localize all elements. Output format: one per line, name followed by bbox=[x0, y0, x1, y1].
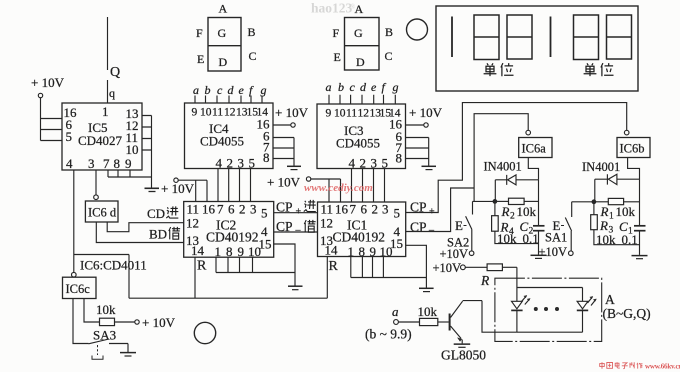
IC4 CD4055 bbox=[185, 103, 274, 169]
digit 8 box 3 bbox=[574, 15, 599, 60]
svg-text:D: D bbox=[356, 55, 365, 69]
ground at C1 bbox=[632, 256, 648, 259]
svg-text:C: C bbox=[385, 49, 393, 63]
wire IC2 pin15 to bottom bus bbox=[274, 244, 295, 273]
terminal a input bbox=[392, 304, 420, 324]
svg-text:8: 8 bbox=[226, 244, 233, 259]
svg-text:c: c bbox=[217, 83, 223, 97]
svg-text:12: 12 bbox=[320, 216, 333, 231]
resistor R2 10k bbox=[495, 198, 539, 221]
IC6a gate bbox=[519, 130, 552, 157]
svg-text:+10V: +10V bbox=[440, 247, 469, 261]
svg-text:R: R bbox=[329, 259, 339, 274]
wire IC6a output net bbox=[474, 114, 528, 202]
connector circle lower bbox=[194, 322, 215, 343]
svg-text:c: c bbox=[350, 80, 356, 94]
svg-text:3: 3 bbox=[382, 202, 389, 217]
LED D-b bbox=[577, 296, 597, 310]
svg-text:GL8050: GL8050 bbox=[441, 348, 486, 363]
diode IN4001 right bbox=[582, 160, 640, 185]
svg-text:3: 3 bbox=[238, 156, 245, 171]
svg-text:+ 10V: + 10V bbox=[142, 315, 176, 330]
LED array inner frame bbox=[517, 288, 583, 333]
wire R to LED anode bus bbox=[516, 267, 518, 287]
svg-text:A: A bbox=[219, 2, 228, 16]
resistor R bbox=[480, 264, 517, 288]
svg-text:11: 11 bbox=[212, 107, 223, 119]
IC1 CD40192 bbox=[318, 202, 406, 257]
svg-text:3: 3 bbox=[250, 202, 257, 217]
svg-text:12: 12 bbox=[186, 216, 199, 231]
svg-text:+10V: +10V bbox=[433, 261, 462, 275]
label BD借 bbox=[149, 227, 180, 242]
IC6c gate bbox=[63, 255, 97, 299]
svg-text:12: 12 bbox=[358, 108, 370, 120]
svg-text:5: 5 bbox=[261, 206, 268, 221]
wire IC6b input step bbox=[628, 158, 640, 180]
svg-text:2: 2 bbox=[372, 202, 379, 217]
digit 8 box 2 bbox=[507, 15, 532, 59]
svg-text:+: + bbox=[296, 207, 302, 218]
wire IC1 pin15 to bottom bus bbox=[406, 245, 427, 277]
IC6b gate bbox=[617, 130, 650, 157]
wire IC6d to IC2 pin12 CD input bbox=[107, 222, 184, 232]
svg-text:IC6b: IC6b bbox=[620, 142, 645, 156]
capacitor C2 0.1 bbox=[520, 180, 545, 255]
svg-text:A: A bbox=[355, 2, 364, 16]
display panel box bbox=[436, 6, 638, 91]
svg-text:C: C bbox=[249, 49, 257, 63]
svg-text:E: E bbox=[455, 218, 463, 233]
wire IC4 pins 6,7,8 to ground bbox=[273, 138, 294, 166]
svg-text:G: G bbox=[354, 26, 363, 40]
7-segment reference diagram left bbox=[196, 2, 257, 72]
wire IC3 segment output stubs bbox=[329, 95, 395, 104]
svg-text:10: 10 bbox=[334, 108, 346, 120]
svg-text:www.66kv.cn: www.66kv.cn bbox=[645, 363, 680, 371]
svg-text:+ 10V: + 10V bbox=[275, 105, 309, 120]
IC3 CD4055 bbox=[317, 104, 406, 169]
svg-text:1: 1 bbox=[102, 104, 109, 119]
svg-text:IC6a: IC6a bbox=[522, 142, 547, 156]
switch SA1 bbox=[539, 218, 574, 260]
resistor R4 10k bbox=[492, 201, 539, 245]
svg-text:14: 14 bbox=[191, 243, 205, 258]
power rail symbol +10V at IC5 bus bbox=[145, 181, 195, 196]
+10V terminal feeding IC1 pins 11,16 bbox=[267, 175, 341, 203]
svg-text:E: E bbox=[197, 52, 204, 66]
svg-text:10: 10 bbox=[248, 244, 261, 259]
+10V terminal feeding IC2 pins 11,16 bbox=[174, 178, 207, 202]
svg-text:7: 7 bbox=[350, 202, 357, 217]
transistor GL8050 bbox=[441, 301, 486, 363]
svg-text:7: 7 bbox=[103, 156, 110, 171]
wire IC1 pins 1,8,9,10 to bottom bus bbox=[351, 257, 427, 288]
+10V terminal feeding resistor R bbox=[433, 261, 488, 275]
LED D-a bbox=[511, 295, 530, 310]
connector circle upper bbox=[407, 19, 428, 40]
svg-text:6: 6 bbox=[228, 202, 235, 217]
resistor R3 10k bbox=[591, 202, 640, 247]
svg-text:10k: 10k bbox=[96, 302, 116, 317]
svg-text:8: 8 bbox=[359, 244, 366, 259]
wire CP- IC1 to IC6a output bbox=[406, 188, 474, 232]
svg-text:BD: BD bbox=[149, 227, 167, 242]
svg-text:5: 5 bbox=[66, 129, 73, 144]
svg-text:R: R bbox=[600, 204, 609, 219]
svg-text:4: 4 bbox=[349, 156, 356, 171]
ground at IC1 bus bbox=[419, 288, 434, 291]
svg-text:7: 7 bbox=[217, 202, 224, 217]
digit "1" bar right group bbox=[550, 17, 552, 58]
svg-text:Q: Q bbox=[110, 65, 120, 80]
svg-text:IN4001: IN4001 bbox=[582, 160, 620, 174]
wire SA2 node bbox=[473, 201, 495, 214]
svg-text:b: b bbox=[338, 80, 344, 94]
svg-text:CP: CP bbox=[276, 200, 293, 215]
svg-text:D: D bbox=[219, 55, 228, 69]
ground at SA3 bbox=[120, 344, 136, 357]
svg-text:g: g bbox=[393, 80, 399, 94]
svg-text:g: g bbox=[261, 83, 267, 97]
svg-text:CP: CP bbox=[410, 220, 427, 235]
label 单位 left bbox=[484, 63, 514, 76]
wire CP+ IC2 to IC1 bbox=[274, 212, 318, 214]
ground at IC4 bbox=[287, 166, 301, 169]
IC5 CD4027 bbox=[62, 103, 142, 170]
svg-text:+10V: +10V bbox=[539, 245, 568, 259]
label CP- of IC1 bbox=[410, 220, 435, 237]
wire IC6a input step bbox=[528, 158, 538, 180]
svg-text:IC6c: IC6c bbox=[66, 282, 91, 296]
svg-text:IN4001: IN4001 bbox=[484, 160, 522, 174]
wire IC6c input to SA3 bbox=[73, 299, 89, 344]
svg-text:12: 12 bbox=[224, 107, 236, 119]
svg-text:6: 6 bbox=[361, 202, 368, 217]
svg-text:F: F bbox=[196, 26, 203, 40]
+10V terminal at IC6c resistor bbox=[115, 315, 176, 330]
svg-text:d: d bbox=[360, 80, 367, 94]
svg-text:10k: 10k bbox=[497, 231, 517, 246]
svg-text:E: E bbox=[334, 50, 341, 64]
svg-text:11: 11 bbox=[346, 108, 357, 120]
pushbutton SA3 bbox=[89, 328, 129, 360]
diode IN4001 left bbox=[484, 160, 539, 185]
wire IC3 BCD outputs to IC1 bbox=[352, 169, 385, 203]
svg-text:1: 1 bbox=[609, 212, 614, 222]
svg-text:10: 10 bbox=[380, 244, 393, 259]
svg-text:CD4055: CD4055 bbox=[336, 136, 380, 151]
ground at IC3 bbox=[422, 166, 437, 169]
svg-text:(b ~ 9.9): (b ~ 9.9) bbox=[365, 327, 412, 342]
wire IC2 pin14 R to bus bbox=[194, 257, 196, 298]
svg-text:5: 5 bbox=[394, 206, 401, 221]
capacitor C1 0.1 bbox=[619, 179, 646, 255]
svg-text:SA1: SA1 bbox=[545, 231, 567, 245]
svg-text:10k: 10k bbox=[616, 204, 636, 219]
node R1 top junction bbox=[592, 200, 596, 204]
svg-text:e: e bbox=[371, 80, 377, 94]
segment input labels a-g of IC3 bbox=[326, 80, 399, 94]
wire IC4 BCD outputs to IC2 bbox=[218, 169, 251, 202]
resistor 10k at base bbox=[418, 304, 449, 326]
svg-text:10: 10 bbox=[200, 107, 212, 119]
resistor R1 10k bbox=[594, 198, 640, 221]
svg-text:CD40192: CD40192 bbox=[333, 230, 386, 245]
svg-text:d: d bbox=[228, 83, 235, 97]
svg-text:4: 4 bbox=[66, 156, 73, 171]
svg-text:11: 11 bbox=[321, 202, 334, 217]
wire IC5 pins 7,8,9 bus bbox=[108, 170, 152, 188]
ground at C2 bbox=[531, 255, 547, 258]
svg-text:G: G bbox=[218, 26, 227, 40]
watermark 66kv red bbox=[600, 362, 643, 368]
ground at IC2 bus bbox=[288, 286, 303, 290]
svg-text:(B~G,Q): (B~G,Q) bbox=[603, 306, 651, 321]
svg-text:CD4055: CD4055 bbox=[200, 134, 244, 149]
svg-text:9: 9 bbox=[125, 156, 132, 171]
label CP+ of IC1 bbox=[410, 200, 435, 218]
LED array enclosure dash-dot box bbox=[495, 278, 602, 341]
digit "1" bar left group bbox=[451, 17, 453, 58]
wire IC5 left supply bus bbox=[41, 98, 63, 141]
svg-text:e: e bbox=[239, 83, 245, 97]
svg-text:R: R bbox=[480, 273, 490, 288]
dots between LEDs bbox=[534, 307, 559, 311]
node Q bbox=[108, 17, 121, 103]
svg-text:q: q bbox=[109, 86, 115, 100]
node R2 top junction bbox=[493, 200, 497, 204]
svg-text:1: 1 bbox=[215, 244, 222, 259]
svg-text:16: 16 bbox=[335, 202, 349, 217]
svg-text:+ 10V: + 10V bbox=[267, 175, 301, 190]
svg-text:9: 9 bbox=[238, 244, 245, 259]
svg-text:CD4027: CD4027 bbox=[78, 133, 123, 148]
svg-text:3: 3 bbox=[88, 156, 95, 171]
svg-text:11: 11 bbox=[187, 202, 200, 217]
+10V terminal at IC3 pin16 bbox=[406, 105, 443, 127]
resistor 10k at IC6c bbox=[96, 302, 116, 326]
svg-text:14: 14 bbox=[325, 243, 339, 258]
wire IC5 right pins bus bbox=[142, 116, 152, 178]
wire diode to R2 node bbox=[494, 180, 496, 202]
switch SA2 bbox=[440, 216, 474, 261]
svg-text:8: 8 bbox=[114, 156, 121, 171]
wire IC6d to IC2 pin13 BD input bbox=[96, 222, 183, 243]
svg-text:IC6 d: IC6 d bbox=[88, 206, 117, 220]
svg-text:R: R bbox=[197, 259, 207, 274]
7-segment reference diagram right bbox=[333, 2, 394, 70]
svg-text:4: 4 bbox=[216, 156, 223, 171]
svg-text:R: R bbox=[501, 204, 510, 219]
svg-text:9: 9 bbox=[192, 107, 198, 119]
svg-text:0.1: 0.1 bbox=[523, 231, 539, 246]
svg-text:IC6:CD4011: IC6:CD4011 bbox=[80, 258, 147, 273]
svg-text:2: 2 bbox=[510, 212, 515, 222]
label CP- 借 (IC2 borrow out) bbox=[276, 219, 316, 236]
wire IC1 pin14 R to bus bbox=[326, 257, 328, 299]
svg-text:8: 8 bbox=[263, 150, 270, 165]
+10V terminal at IC4 pin16 bbox=[273, 105, 309, 127]
wire IC5 pin4 to reset net bbox=[73, 170, 75, 255]
svg-text:8: 8 bbox=[396, 151, 403, 166]
svg-text:–: – bbox=[428, 225, 435, 236]
wire SA1 node bbox=[572, 202, 594, 217]
wire diode to R1 node bbox=[594, 179, 596, 202]
segment input labels a-g of IC4 bbox=[193, 83, 267, 97]
svg-text:CD40192: CD40192 bbox=[206, 230, 259, 245]
svg-text:B: B bbox=[385, 25, 393, 39]
wire CP- IC2 to IC1 bbox=[274, 231, 318, 233]
svg-text:R: R bbox=[599, 218, 608, 233]
svg-text:+ 10V: + 10V bbox=[409, 105, 443, 120]
svg-text:a: a bbox=[326, 80, 332, 94]
ground at emitter bbox=[454, 344, 471, 347]
svg-text:hao123: hao123 bbox=[311, 1, 353, 16]
svg-text:9: 9 bbox=[326, 108, 332, 120]
svg-text:2: 2 bbox=[227, 156, 234, 171]
svg-text:10: 10 bbox=[126, 142, 139, 157]
svg-text:www.cediy.com: www.cediy.com bbox=[304, 182, 373, 194]
svg-text:CP: CP bbox=[276, 219, 293, 234]
svg-text:16: 16 bbox=[202, 202, 216, 217]
svg-text:3: 3 bbox=[371, 156, 378, 171]
svg-text:2: 2 bbox=[360, 156, 367, 171]
label CD进 bbox=[147, 206, 178, 221]
svg-text:2: 2 bbox=[239, 202, 246, 217]
svg-text:F: F bbox=[333, 26, 340, 40]
svg-text:B: B bbox=[248, 25, 256, 39]
wire collector to LED cathode bus bbox=[482, 301, 517, 333]
svg-text:a: a bbox=[392, 304, 399, 319]
svg-text:10k: 10k bbox=[517, 204, 537, 219]
svg-text:a: a bbox=[193, 83, 199, 97]
wire CP+ IC1 to IC6b output bbox=[406, 103, 627, 213]
wire IC6c input to 10k resistor bbox=[84, 299, 100, 323]
wire IC3 pins 6,7,8 to ground bbox=[406, 138, 429, 166]
svg-text:+ 10V: + 10V bbox=[161, 181, 195, 196]
svg-text:5: 5 bbox=[249, 156, 256, 171]
wire reset net IC5 pin4 to R bus bbox=[74, 255, 327, 299]
svg-text:b: b bbox=[205, 83, 211, 97]
IC6d gate bbox=[85, 195, 118, 222]
svg-text:+ 10V: + 10V bbox=[31, 75, 65, 90]
watermark hao123 bbox=[311, 1, 356, 16]
svg-text:–: – bbox=[295, 225, 302, 236]
svg-text:®: ® bbox=[350, 3, 356, 11]
wire IC4 segment output stubs bbox=[195, 96, 262, 104]
svg-text:A: A bbox=[605, 292, 615, 307]
svg-text:0.1: 0.1 bbox=[622, 232, 638, 247]
label CP+ 进 (IC2 carry out) bbox=[276, 200, 316, 218]
digit 8 box 1 bbox=[474, 15, 499, 60]
svg-text:10k: 10k bbox=[596, 232, 616, 247]
digit 8 box 4 bbox=[607, 15, 632, 59]
IC2 CD40192 bbox=[184, 202, 274, 258]
wire IC5 pin3 to IC6d bbox=[95, 170, 97, 195]
svg-text:CD: CD bbox=[147, 206, 165, 221]
+10V supply terminal for IC5 bbox=[31, 75, 65, 98]
svg-text:5: 5 bbox=[382, 156, 389, 171]
wire IC2 pins 1,8,9,10 to bottom bus bbox=[216, 257, 295, 286]
label 单位 right bbox=[584, 63, 614, 76]
svg-text:10k: 10k bbox=[418, 304, 438, 319]
